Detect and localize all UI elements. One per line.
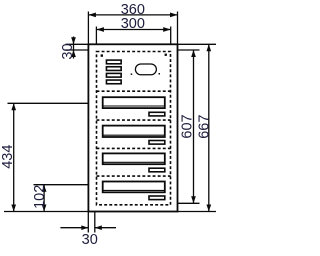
bay 4 slot handle line [104, 189, 165, 191]
slot4 extension line left [34, 184, 89, 186]
bay 3 latch rect [149, 168, 165, 172]
dashed divider bay3/bay4 [97, 175, 171, 177]
panel top extension line right [178, 49, 200, 51]
dimension 300 right arrow [163, 27, 171, 32]
drain stub left line [87, 212, 89, 233]
bay 1 slot [103, 97, 165, 108]
svg-text:102: 102 [32, 185, 48, 209]
dimension 607 line [193, 50, 195, 203]
bay 2 latch rect [149, 141, 165, 145]
dimension 360 left arrow [88, 13, 96, 18]
svg-text:667: 667 [197, 115, 213, 139]
svg-text:30: 30 [82, 232, 98, 248]
vent slat 4 [106, 80, 121, 84]
dimension 360 right arrow [170, 13, 178, 18]
dimension 607 bottom arrow [191, 196, 196, 203]
svg-text:434: 434 [0, 145, 16, 169]
dimension 300 left arrow [96, 27, 104, 32]
dimension 30 top-left line [73, 37, 75, 59]
top edge extension line left [66, 43, 89, 45]
slot1 axis extension line left [8, 102, 89, 104]
bay 1 latch rect [149, 112, 165, 116]
dashed divider bay2/bay3 [97, 147, 171, 149]
panel top extension line left [66, 49, 89, 51]
dimension 102 bottom arrow [42, 205, 47, 212]
oval screw dot right [159, 73, 161, 75]
dimension 30 bottom left arrow [81, 225, 88, 230]
oval screw dot left [131, 73, 133, 75]
vent slat 1 [106, 60, 121, 64]
dimension 434 bottom arrow [11, 205, 16, 212]
bay 2 slot [103, 126, 165, 137]
dimension 300 line [96, 29, 170, 31]
dimension 30 top-left lower arrow [71, 50, 76, 57]
oval opening [135, 64, 156, 75]
bay 2 slot handle line [104, 134, 165, 136]
dimension 607 top arrow [191, 50, 196, 57]
svg-text:300: 300 [121, 16, 145, 32]
dimension 102 line [43, 185, 45, 212]
dashed divider bay1/bay2 [97, 119, 171, 121]
vent panel corner dot right [165, 54, 167, 56]
svg-text:30: 30 [60, 43, 76, 59]
bay 3 slot handle line [104, 161, 165, 163]
svg-text:607: 607 [180, 114, 196, 138]
vent slat 3 [106, 73, 121, 77]
bottom edge extension line right [178, 211, 217, 213]
dimension 30 bottom left segment [60, 227, 88, 229]
dimension 667 line [208, 44, 210, 211]
bay 4 slot [103, 182, 165, 193]
cabinet outline [88, 44, 177, 211]
dimension 360 extension line right [177, 12, 179, 45]
front panel dashed outer box [97, 52, 171, 205]
vent panel corner dot left [101, 54, 103, 56]
bay 3 slot [103, 153, 165, 164]
dimension 300 extension line left [95, 27, 97, 45]
bay 1 slot handle line [104, 105, 165, 107]
top edge extension line right [178, 43, 217, 45]
dimension 434 top arrow [11, 103, 16, 110]
dimension 30 bottom right arrow [95, 225, 102, 230]
dimension 102 top arrow [42, 185, 47, 192]
dimension 434 line [13, 103, 15, 211]
dimension 30 bottom right segment [95, 227, 116, 229]
bottom edge extension line left [4, 211, 88, 213]
dimension 667 bottom arrow [206, 205, 211, 212]
bay 4 latch rect [149, 196, 165, 200]
dashed divider under vent section [97, 90, 171, 92]
dimension 360 line [88, 14, 177, 16]
dimension 667 top arrow [206, 44, 211, 51]
panel bottom extension line right [178, 202, 200, 204]
dimension 300 extension line right [170, 27, 172, 45]
vent slat 2 [106, 67, 121, 71]
dimension 360 extension line left [87, 12, 89, 45]
dimension 30 top-left upper arrow [71, 37, 76, 44]
drain stub right line [94, 212, 96, 233]
